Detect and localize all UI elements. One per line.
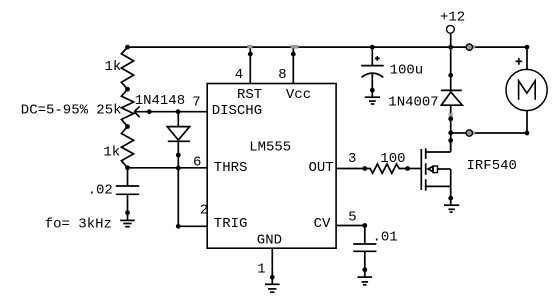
- svg-text:TRIG: TRIG: [214, 216, 248, 232]
- wire pot wiper to DISCHG pin7: [134, 111, 207, 113]
- svg-text:1k: 1k: [105, 59, 122, 75]
- pin 1 GND wire: [257, 248, 274, 284]
- svg-text:3: 3: [348, 151, 356, 167]
- wire motor bottom right: [473, 132, 528, 134]
- svg-text:7: 7: [192, 95, 200, 111]
- wire gate: [408, 168, 422, 170]
- wire down to TRIG: [177, 168, 179, 226]
- svg-text:Vcc: Vcc: [286, 87, 311, 103]
- capacitor C3 .01: [353, 226, 398, 278]
- wire OUT pin3: [336, 168, 365, 170]
- svg-text:THRS: THRS: [214, 160, 248, 176]
- pin dot mosfet source: [448, 196, 453, 201]
- junction drain/motor wire: [448, 130, 453, 135]
- connector circle on motor bottom wire: [466, 130, 475, 136]
- svg-text:8: 8: [278, 67, 286, 83]
- capacitor C2 100u: [361, 47, 423, 97]
- ground below C1: [120, 220, 135, 226]
- pin dot diode bottom: [176, 153, 181, 158]
- junction pot/1k2: [125, 124, 130, 129]
- svg-text:DC=5-95%: DC=5-95%: [21, 103, 89, 119]
- svg-text:5: 5: [348, 210, 356, 226]
- svg-text:100u: 100u: [390, 62, 424, 78]
- wire motor bottom left: [451, 132, 466, 134]
- junction 1k2/cap/THRS: [125, 165, 130, 170]
- ground below pin1: [265, 284, 280, 292]
- pin 4 RST wire: [235, 45, 253, 84]
- svg-text:LM555: LM555: [249, 140, 291, 156]
- pin dot C3 bottom: [362, 267, 367, 272]
- ground below C3: [358, 277, 373, 285]
- pin dot C1 bottom: [125, 210, 130, 215]
- resistor R3 100: [365, 151, 408, 174]
- svg-text:6: 6: [193, 155, 201, 171]
- ground below C2: [365, 97, 380, 104]
- wire top rail left: [128, 46, 467, 48]
- junction rail/100u: [370, 45, 375, 50]
- junction rail/motor: [525, 45, 530, 50]
- capacitor C1 .02: [88, 168, 140, 221]
- svg-text:1N4148: 1N4148: [135, 93, 185, 109]
- svg-text:1: 1: [257, 262, 265, 278]
- svg-text:RST: RST: [237, 87, 262, 103]
- wire top rail right: [473, 46, 528, 48]
- svg-text:.01: .01: [373, 229, 398, 245]
- connector circle on +12 rail: [466, 44, 475, 50]
- svg-text:OUT: OUT: [309, 160, 334, 176]
- pin dot D2 bottom: [448, 116, 453, 121]
- svg-text:DISCHG: DISCHG: [212, 103, 262, 119]
- ground below mosfet: [444, 205, 459, 212]
- svg-text:IRF540: IRF540: [467, 158, 517, 174]
- transistor Q1 IRF540: [421, 140, 517, 205]
- wire CV pin5: [336, 225, 365, 227]
- svg-text:2: 2: [200, 203, 208, 219]
- svg-text:100: 100: [380, 151, 405, 167]
- junction CV/cap: [362, 223, 367, 228]
- junction diode line/THRS wire: [176, 166, 181, 171]
- junction rail/1N4007: [448, 45, 453, 50]
- junction rail/1k: [125, 45, 130, 50]
- svg-text:CV: CV: [314, 216, 331, 232]
- pin dot mosfet drain: [448, 138, 453, 143]
- wire THRS node to pin6: [128, 167, 208, 169]
- node +12 terminal: [440, 10, 465, 48]
- junction resistor right / gate: [405, 166, 410, 171]
- junction wire/diode D1: [176, 109, 181, 114]
- wire TRIG to pin2: [178, 225, 207, 227]
- diode D2 1N4007: [388, 47, 462, 151]
- junction wiper wire: [147, 109, 152, 114]
- junction 1k/pot: [125, 87, 130, 92]
- svg-text:25k: 25k: [96, 103, 121, 119]
- junction motor bottom corner: [525, 131, 530, 136]
- svg-text:fo= 3kHz: fo= 3kHz: [45, 217, 112, 233]
- pin dot C2 bottom: [370, 88, 375, 93]
- resistor R2 1k bottom: [103, 127, 133, 168]
- svg-text:+12: +12: [440, 10, 465, 26]
- junction resistor left: [362, 166, 367, 171]
- diode D1 1N4148: [135, 93, 190, 168]
- resistor R1 1k top: [105, 47, 134, 89]
- svg-text:1k: 1k: [103, 144, 120, 160]
- potentiometer 25k: [21, 89, 140, 126]
- svg-text:.02: .02: [88, 183, 113, 199]
- junction TRIG corner: [176, 224, 181, 229]
- svg-text:4: 4: [235, 67, 243, 83]
- pin 8 Vcc wire: [278, 45, 298, 84]
- svg-text:GND: GND: [257, 233, 282, 249]
- op-amp U1 LM555 box: [207, 84, 336, 249]
- motor M1: [506, 47, 547, 133]
- svg-text:1N4007: 1N4007: [388, 95, 438, 111]
